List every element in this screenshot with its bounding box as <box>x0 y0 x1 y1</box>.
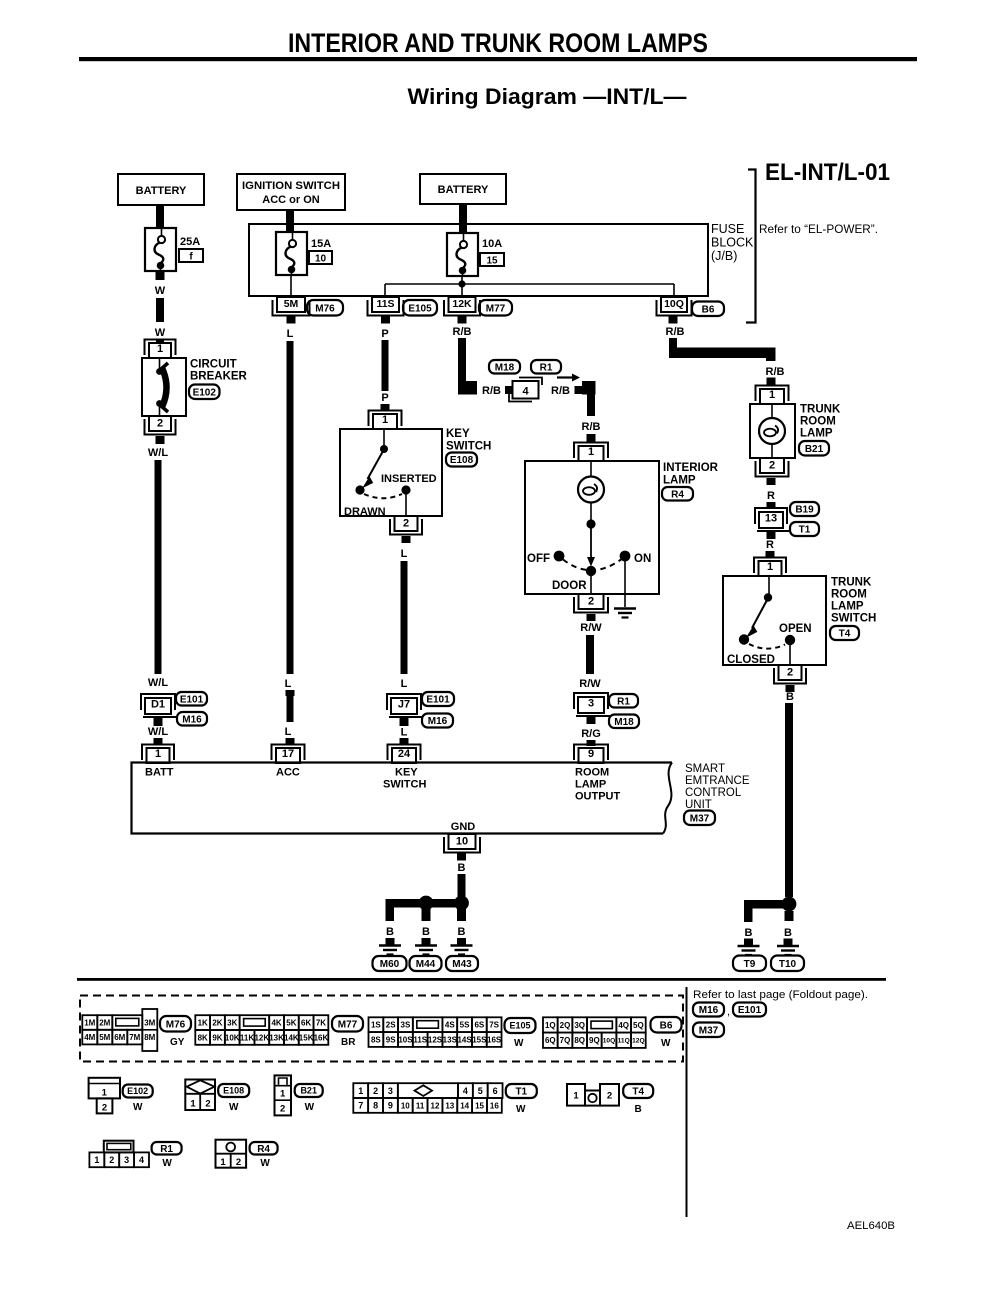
svg-text:LAMP: LAMP <box>800 428 833 440</box>
wire R/G to pin 9 <box>581 717 601 746</box>
svg-text:1Q: 1Q <box>545 1021 556 1030</box>
svg-text:EMTRANCE: EMTRANCE <box>685 775 750 787</box>
connector oval M76 <box>307 300 343 316</box>
interior lamp box R4 <box>525 461 659 607</box>
ignition switch box <box>237 174 345 210</box>
svg-text:W: W <box>516 1104 526 1115</box>
svg-text:5M: 5M <box>99 1033 110 1042</box>
svg-text:6M: 6M <box>114 1033 125 1042</box>
svg-text:EL-INT/L-01: EL-INT/L-01 <box>765 159 890 186</box>
svg-text:OFF: OFF <box>527 553 550 565</box>
legend divider line <box>686 987 688 1217</box>
label SMART EMTRANCE CONTROL UNIT <box>685 763 750 811</box>
page title <box>288 28 708 58</box>
svg-text:2: 2 <box>403 518 409 530</box>
svg-text:5K: 5K <box>286 1018 296 1027</box>
svg-text:6: 6 <box>493 1086 498 1096</box>
label INTERIOR LAMP <box>663 462 719 487</box>
svg-text:D1: D1 <box>151 698 165 710</box>
svg-text:W: W <box>155 285 166 297</box>
svg-text:1: 1 <box>573 1091 579 1102</box>
svg-text:25A: 25A <box>180 236 200 248</box>
svg-text:R/G: R/G <box>581 728 601 740</box>
wire R/B elbow down to interior lamp <box>582 381 601 442</box>
svg-text:3: 3 <box>388 1086 393 1096</box>
svg-text:3: 3 <box>588 697 594 709</box>
svg-text:DOOR: DOOR <box>552 580 587 592</box>
svg-text:ACC or ON: ACC or ON <box>262 194 320 206</box>
svg-text:1: 1 <box>220 1157 226 1168</box>
svg-text:11K: 11K <box>240 1033 254 1042</box>
wire L to pin 24 <box>400 718 409 745</box>
svg-text:W: W <box>133 1102 143 1113</box>
wire R/B from 10Q elbow to trunk lamp <box>666 316 785 385</box>
svg-text:2S: 2S <box>386 1021 396 1030</box>
svg-text:T4: T4 <box>632 1087 644 1098</box>
wire P to key switch <box>381 316 391 411</box>
svg-text:2: 2 <box>102 1103 107 1114</box>
svg-text:LAMP: LAMP <box>831 601 864 613</box>
direction arrow <box>557 374 580 382</box>
svg-text:12K: 12K <box>452 298 472 310</box>
connector oval M18 b <box>609 715 639 729</box>
svg-text:B: B <box>784 927 792 939</box>
svg-text:16K: 16K <box>314 1033 329 1042</box>
svg-text:B: B <box>458 862 466 874</box>
connector oval T1 a <box>790 522 819 536</box>
ground bus junction <box>386 896 469 921</box>
svg-text:E101: E101 <box>738 1005 762 1016</box>
svg-text:INSERTED: INSERTED <box>381 473 437 485</box>
figure code AEL640B <box>847 1220 895 1232</box>
svg-text:3K: 3K <box>227 1018 237 1027</box>
title rule <box>79 57 917 61</box>
svg-text:10: 10 <box>315 254 327 265</box>
circuit breaker E102 <box>142 358 186 416</box>
svg-text:R4: R4 <box>671 489 684 500</box>
svg-text:R4: R4 <box>257 1144 270 1155</box>
svg-text:Refer to “EL-POWER”.: Refer to “EL-POWER”. <box>759 222 878 236</box>
svg-text:1: 1 <box>155 748 161 760</box>
ground T10 <box>771 927 804 971</box>
svg-text:B: B <box>786 691 794 703</box>
svg-text:E101: E101 <box>180 694 204 705</box>
svg-text:9K: 9K <box>212 1033 222 1042</box>
svg-text:12: 12 <box>431 1101 440 1110</box>
in-line connector 3 <box>574 693 610 716</box>
circuit breaker pin 1 <box>145 340 176 359</box>
svg-text:13: 13 <box>445 1101 454 1110</box>
svg-text:W: W <box>162 1158 172 1169</box>
svg-text:9: 9 <box>588 748 594 760</box>
legend ovals M16 E101 <box>693 1003 766 1019</box>
label TRUNK ROOM LAMP <box>800 404 841 440</box>
legend oval T4 B <box>623 1084 653 1115</box>
ground M43 <box>446 926 478 971</box>
svg-text:T9: T9 <box>744 959 756 970</box>
svg-text:10S: 10S <box>398 1035 413 1044</box>
legend connector T4 <box>567 1084 619 1106</box>
svg-text:BLOCK: BLOCK <box>711 236 754 250</box>
wire ignition to fuse 15A <box>286 210 294 233</box>
legend oval E105 W <box>505 1018 536 1049</box>
label 10A <box>482 238 502 250</box>
smart unit pin 24 KEY SWITCH <box>383 745 426 791</box>
svg-text:1: 1 <box>358 1086 363 1096</box>
svg-text:TRUNK: TRUNK <box>800 404 841 416</box>
wire R/W to connector 3 <box>579 614 602 690</box>
svg-text:2Q: 2Q <box>560 1021 571 1030</box>
legend connector E102 <box>89 1078 120 1114</box>
svg-text:IGNITION SWITCH: IGNITION SWITCH <box>242 180 340 192</box>
svg-text:16S: 16S <box>487 1035 502 1044</box>
svg-text:11: 11 <box>416 1101 425 1110</box>
svg-text:8S: 8S <box>371 1035 381 1044</box>
wire battery1 to fuse 25A <box>156 205 164 228</box>
svg-text:W/L: W/L <box>148 726 168 738</box>
svg-text:1: 1 <box>94 1155 99 1165</box>
connector 5M <box>273 297 310 316</box>
in-line connector 4 <box>509 378 542 402</box>
svg-text:R/B: R/B <box>482 385 501 397</box>
svg-text:SWITCH: SWITCH <box>446 441 491 453</box>
svg-text:SMART: SMART <box>685 763 725 775</box>
legend connector grid B6 <box>543 1017 646 1048</box>
fuse 25A f <box>145 228 176 271</box>
svg-text:10A: 10A <box>482 238 502 250</box>
svg-text:L: L <box>401 678 408 690</box>
svg-text:11S: 11S <box>413 1035 427 1044</box>
legend oval M76 GY <box>160 1016 191 1048</box>
svg-text:R: R <box>766 539 774 551</box>
connector oval R4 <box>662 487 693 501</box>
svg-text:P: P <box>381 392 388 404</box>
svg-text:BATTERY: BATTERY <box>438 184 489 196</box>
connector ovals M18 R1 <box>489 360 520 374</box>
legend oval M77 BR <box>332 1016 363 1048</box>
wire W/L to BATT pin <box>148 718 168 745</box>
svg-text:2K: 2K <box>212 1018 222 1027</box>
svg-text:B21: B21 <box>805 444 824 455</box>
svg-text:,: , <box>727 1006 730 1018</box>
svg-text:LAMP: LAMP <box>575 779 606 791</box>
svg-text:T1: T1 <box>515 1087 527 1098</box>
svg-text:16: 16 <box>490 1101 499 1110</box>
svg-text:7Q: 7Q <box>560 1036 571 1045</box>
svg-text:5S: 5S <box>460 1021 470 1030</box>
fuse id box 10 <box>309 251 332 265</box>
svg-text:W: W <box>305 1102 315 1113</box>
in-line connector 13 <box>755 508 789 531</box>
svg-text:9: 9 <box>388 1101 393 1111</box>
svg-text:FUSE: FUSE <box>711 222 744 236</box>
ground interior lamp <box>614 609 636 618</box>
svg-text:M18: M18 <box>495 362 515 373</box>
svg-text:CIRCUIT: CIRCUIT <box>190 359 237 371</box>
ground M60 <box>373 926 407 971</box>
svg-text:10K: 10K <box>225 1033 240 1042</box>
svg-text:11Q: 11Q <box>618 1038 630 1045</box>
svg-text:1: 1 <box>588 446 594 458</box>
svg-text:M18: M18 <box>614 717 634 728</box>
svg-text:10: 10 <box>456 836 468 848</box>
connector oval E108 <box>446 453 477 467</box>
svg-text:ON: ON <box>634 553 651 565</box>
connector oval E105 <box>403 300 437 316</box>
wire B trunk to grounds <box>785 685 795 897</box>
legend dashed box <box>80 996 683 1062</box>
legend oval B6 W <box>651 1017 682 1049</box>
connector 11S <box>368 297 404 316</box>
svg-text:2: 2 <box>769 460 775 472</box>
svg-text:2M: 2M <box>99 1018 110 1027</box>
wire L key switch to J7 <box>401 536 411 690</box>
legend oval M37 <box>693 1023 724 1038</box>
svg-text:BATTERY: BATTERY <box>136 185 187 197</box>
legend oval T1 W <box>506 1084 537 1115</box>
legend connector grid E105 <box>369 1017 502 1047</box>
legend connector R1 <box>89 1141 149 1168</box>
svg-text:BREAKER: BREAKER <box>190 371 248 383</box>
legend oval R1 W <box>152 1142 182 1169</box>
svg-text:6K: 6K <box>301 1018 311 1027</box>
svg-text:CLOSED: CLOSED <box>727 654 775 666</box>
svg-text:10Q: 10Q <box>664 298 684 310</box>
wire R to connector 13 <box>767 478 776 509</box>
svg-text:M60: M60 <box>380 959 400 970</box>
svg-text:W/L: W/L <box>148 447 168 459</box>
legend oval R4 W <box>250 1142 278 1169</box>
svg-text:15S: 15S <box>472 1035 487 1044</box>
svg-text:10: 10 <box>401 1101 410 1110</box>
svg-text:KEY: KEY <box>395 767 418 779</box>
svg-text:1: 1 <box>280 1089 286 1100</box>
junction dot in fuse block <box>458 280 465 287</box>
svg-text:15: 15 <box>486 256 498 267</box>
svg-text:OPEN: OPEN <box>779 623 812 635</box>
legend connector grid M76 <box>82 1009 157 1051</box>
svg-text:M16: M16 <box>182 714 202 725</box>
svg-text:R/B: R/B <box>453 326 472 338</box>
svg-text:L: L <box>287 328 294 340</box>
svg-text:(J/B): (J/B) <box>711 249 737 263</box>
legend connector grid M77 <box>195 1015 328 1045</box>
fuse id box f <box>179 249 203 263</box>
trunk room lamp switch pin 1 <box>754 558 786 577</box>
connector D1 <box>141 694 177 717</box>
connector oval M77 <box>479 300 512 316</box>
label 15A <box>311 238 331 250</box>
svg-text:17: 17 <box>282 748 294 760</box>
wire B below GND <box>457 853 466 898</box>
svg-text:W: W <box>260 1158 270 1169</box>
wire L long run <box>285 316 296 746</box>
svg-text:5: 5 <box>478 1086 483 1096</box>
svg-text:BATT: BATT <box>145 767 174 779</box>
fuse 15A 10 <box>276 232 307 275</box>
svg-text:E102: E102 <box>127 1086 148 1096</box>
footer rule <box>77 978 886 981</box>
connector 12K <box>444 297 480 316</box>
svg-text:M16: M16 <box>699 1005 719 1016</box>
label KEY SWITCH <box>446 428 491 453</box>
svg-text:5Q: 5Q <box>633 1021 644 1030</box>
fuse 10A 15 <box>447 233 478 276</box>
svg-text:10Q: 10Q <box>603 1038 615 1045</box>
svg-text:E105: E105 <box>408 303 432 314</box>
svg-text:B: B <box>422 926 430 938</box>
svg-text:13: 13 <box>765 512 777 524</box>
svg-text:M77: M77 <box>486 303 506 314</box>
svg-text:M16: M16 <box>428 716 448 727</box>
svg-text:13S: 13S <box>443 1035 458 1044</box>
svg-text:15: 15 <box>475 1101 484 1110</box>
svg-text:GY: GY <box>170 1037 185 1048</box>
svg-text:W: W <box>155 327 166 339</box>
svg-text:B: B <box>458 926 466 938</box>
key switch pin 2 <box>390 516 422 535</box>
svg-text:1: 1 <box>190 1099 196 1110</box>
legend connector E108 <box>185 1080 215 1111</box>
svg-text:8M: 8M <box>144 1033 155 1042</box>
wire W/L segment <box>148 436 168 689</box>
svg-text:SWITCH: SWITCH <box>383 779 426 791</box>
svg-text:2: 2 <box>607 1091 612 1102</box>
svg-text:R/B: R/B <box>551 385 570 397</box>
svg-text:1: 1 <box>769 389 775 401</box>
svg-text:6Q: 6Q <box>545 1036 556 1045</box>
svg-text:4: 4 <box>139 1155 144 1165</box>
connector oval E101 b <box>422 692 454 706</box>
legend oval B21 W <box>295 1084 323 1113</box>
interior lamp pin 2 <box>574 594 608 613</box>
ground M44 <box>410 926 442 971</box>
interior lamp pin 1 <box>574 443 608 462</box>
svg-text:1K: 1K <box>198 1018 208 1027</box>
svg-text:7S: 7S <box>489 1021 499 1030</box>
svg-text:R1: R1 <box>617 696 630 707</box>
svg-text:7M: 7M <box>129 1033 140 1042</box>
connector J7 <box>387 694 423 717</box>
svg-text:M77: M77 <box>338 1019 358 1030</box>
svg-text:6S: 6S <box>474 1021 484 1030</box>
svg-text:LAMP: LAMP <box>663 475 696 487</box>
svg-text:12Q: 12Q <box>632 1038 644 1045</box>
svg-text:INTERIOR AND TRUNK ROOM LAMPS: INTERIOR AND TRUNK ROOM LAMPS <box>288 28 708 58</box>
svg-text:3: 3 <box>124 1155 129 1165</box>
svg-text:B6: B6 <box>702 304 715 315</box>
trunk room lamp switch pin 2 <box>774 665 806 684</box>
svg-text:KEY: KEY <box>446 428 470 440</box>
svg-text:2: 2 <box>787 667 793 679</box>
svg-text:P: P <box>381 328 388 340</box>
connector 10Q <box>657 297 692 316</box>
svg-text:B: B <box>386 926 394 938</box>
svg-text:M44: M44 <box>416 959 436 970</box>
svg-text:1: 1 <box>767 561 773 573</box>
label GND and pin 10 <box>444 821 480 853</box>
svg-text:8: 8 <box>373 1101 378 1111</box>
fuse block J/B box <box>249 224 708 296</box>
svg-text:R/B: R/B <box>582 421 601 433</box>
page bracket <box>746 170 756 323</box>
svg-text:L: L <box>285 678 292 690</box>
svg-text:24: 24 <box>398 748 411 760</box>
svg-text:E105: E105 <box>509 1021 530 1031</box>
fuse block internal wires <box>385 276 674 297</box>
svg-text:14S: 14S <box>457 1035 472 1044</box>
trunk room lamp pin 2 <box>756 458 789 477</box>
svg-text:14K: 14K <box>284 1033 299 1042</box>
svg-text:J7: J7 <box>398 698 410 710</box>
svg-text:ROOM: ROOM <box>575 767 609 779</box>
svg-text:2: 2 <box>236 1157 241 1168</box>
svg-text:ACC: ACC <box>276 767 300 779</box>
legend connector R4 <box>216 1140 247 1168</box>
svg-text:12S: 12S <box>428 1035 443 1044</box>
svg-text:R/B: R/B <box>666 326 685 338</box>
svg-text:4: 4 <box>522 386 529 398</box>
svg-text:2: 2 <box>373 1086 378 1096</box>
svg-text:E101: E101 <box>426 695 450 706</box>
svg-text:CONTROL: CONTROL <box>685 787 742 799</box>
svg-text:B6: B6 <box>660 1020 673 1031</box>
svg-text:L: L <box>285 726 292 738</box>
svg-text:1M: 1M <box>84 1018 95 1027</box>
svg-text:1S: 1S <box>371 1021 381 1030</box>
svg-text:1: 1 <box>102 1088 108 1099</box>
note refer to last page <box>693 989 868 1001</box>
svg-text:R/W: R/W <box>580 622 602 634</box>
svg-text:R/B: R/B <box>766 366 785 378</box>
svg-text:UNIT: UNIT <box>685 799 712 811</box>
connector oval M37 <box>684 811 715 826</box>
page code EL-INT/L-01 <box>765 159 890 186</box>
svg-text:SWITCH: SWITCH <box>831 613 876 625</box>
svg-text:3Q: 3Q <box>574 1021 585 1030</box>
svg-text:GND: GND <box>451 821 476 833</box>
svg-text:4Q: 4Q <box>618 1021 629 1030</box>
connector oval B19 <box>790 502 819 516</box>
svg-text:B21: B21 <box>300 1086 317 1096</box>
svg-text:INTERIOR: INTERIOR <box>663 462 719 474</box>
wire W segment 1 <box>155 271 166 344</box>
svg-text:L: L <box>401 727 408 739</box>
svg-text:B19: B19 <box>795 505 814 516</box>
svg-text:M37: M37 <box>690 813 710 824</box>
svg-text:BR: BR <box>341 1037 356 1048</box>
label TRUNK ROOM LAMP SWITCH <box>831 577 876 625</box>
label CIRCUIT BREAKER <box>190 359 248 383</box>
connector oval E101 <box>176 692 207 706</box>
svg-text:2: 2 <box>280 1104 285 1115</box>
svg-text:B: B <box>745 927 753 939</box>
note refer to EL-POWER <box>759 222 878 236</box>
trunk room lamp switch box T4 <box>723 576 826 666</box>
battery B1 box <box>118 174 204 205</box>
legend oval E102 W <box>123 1085 153 1114</box>
svg-text:2: 2 <box>157 418 163 430</box>
svg-text:W: W <box>514 1038 524 1049</box>
svg-text:R: R <box>767 490 775 502</box>
svg-text:8K: 8K <box>198 1033 208 1042</box>
trunk ground junction <box>744 897 796 922</box>
connector oval B21 <box>799 441 829 456</box>
svg-text:5M: 5M <box>284 298 299 310</box>
svg-text:R1: R1 <box>160 1144 173 1155</box>
svg-text:15A: 15A <box>311 238 331 250</box>
trunk room lamp pin 1 <box>756 386 789 405</box>
